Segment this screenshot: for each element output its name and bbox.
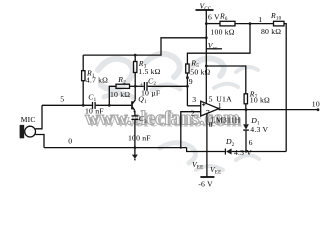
- junction node 1: [249, 22, 252, 25]
- wire node 6 vertical: [245, 131, 247, 152]
- wire R3 top stub: [134, 55, 136, 61]
- wire op-amp output to node 10: [219, 109, 319, 111]
- resistor R10 body: [274, 21, 285, 26]
- svg-text:+: +: [140, 82, 144, 88]
- svg-text:4.3 V: 4.3 V: [250, 125, 268, 134]
- wire op-amp plus input stub: [187, 105, 200, 107]
- junction node 6 on clamp rail: [245, 150, 247, 152]
- wire node1 down to R5 top: [187, 24, 250, 64]
- wire op-amp bottom pin to VEE: [206, 114, 208, 178]
- junction R2 left on net 5: [108, 104, 111, 107]
- svg-text:10 nF: 10 nF: [85, 107, 104, 116]
- ground symbol arrow: [132, 148, 138, 161]
- wire R1 vertical: [82, 55, 84, 71]
- svg-text:LM311H: LM311H: [211, 115, 241, 124]
- wire C3 bottom to ground bus: [134, 119, 136, 147]
- capacitor C3 plates: [131, 116, 138, 120]
- wire R2 left riser: [109, 86, 116, 105]
- junction node 9 upper: [186, 76, 189, 79]
- net label Vcc mid underline: [206, 48, 222, 50]
- junction Vcc stem with left rail: [205, 36, 208, 39]
- watermark calligraphy blobs: [98, 54, 259, 170]
- junction collector node: [134, 85, 137, 88]
- wire R6 left: [206, 23, 220, 25]
- junction R1 bottom on net 5: [82, 104, 85, 107]
- microphone MIC symbol: [20, 125, 36, 138]
- resistor R7 body: [244, 94, 247, 104]
- wire net 5 mic to base: [42, 104, 92, 106]
- junction C3 on ground bus: [134, 146, 137, 149]
- transistor Q1: [132, 100, 136, 113]
- svg-text:2: 2: [191, 108, 195, 117]
- wire R1 bottom to net 5: [82, 81, 84, 106]
- wire C2 right to node 9: [148, 85, 188, 87]
- resistor R2 body: [116, 84, 130, 88]
- svg-text:0: 0: [209, 120, 213, 129]
- wire node 9 vertical: [186, 73, 188, 106]
- wire mic top stub: [35, 105, 42, 129]
- watermark www.elecfans.com: [85, 108, 242, 131]
- capacitor C2 plates: [144, 82, 147, 91]
- svg-text:4.7 kΩ: 4.7 kΩ: [86, 76, 108, 85]
- junction R7 D1 on output wire: [245, 108, 248, 111]
- svg-text:6 V: 6 V: [208, 13, 220, 22]
- junction minus riser on ground bus: [180, 146, 182, 148]
- resistor R3 body: [134, 62, 137, 73]
- svg-text:100 nF: 100 nF: [128, 133, 151, 142]
- node 10 terminal dot: [317, 108, 320, 111]
- svg-text:10 kΩ: 10 kΩ: [110, 90, 130, 99]
- svg-text:7: 7: [206, 108, 210, 117]
- svg-text:9: 9: [189, 77, 193, 86]
- wire R7 bottom to output: [245, 104, 247, 110]
- svg-text:50 kΩ: 50 kΩ: [190, 67, 210, 76]
- op-amp U1A triangle: [201, 101, 219, 116]
- junction Vcc stem with R7 wire: [205, 65, 208, 68]
- resistor R1 body: [82, 71, 85, 81]
- svg-text:MIC: MIC: [21, 115, 36, 124]
- diode D2: [225, 149, 231, 155]
- wire R10 right down right edge: [284, 24, 286, 152]
- power VEE bar: [200, 176, 214, 178]
- svg-text:5: 5: [209, 94, 213, 103]
- svg-text:10 kΩ: 10 kΩ: [250, 95, 270, 104]
- wire D2 right to corner: [232, 151, 287, 153]
- wire R2 right to collector node: [130, 85, 136, 87]
- wire emitter down to C3: [134, 111, 136, 116]
- wire D1 top to output: [245, 110, 247, 125]
- svg-text:6: 6: [249, 138, 253, 147]
- svg-text:1: 1: [258, 15, 262, 24]
- op-amp plus marker: [202, 103, 205, 106]
- power Vcc symbol: [196, 10, 214, 104]
- resistor R5 body: [186, 64, 189, 73]
- svg-text:0: 0: [68, 136, 72, 145]
- wire C1 right to base: [96, 104, 132, 106]
- resistor R6 body: [220, 21, 235, 26]
- svg-text:10: 10: [312, 99, 320, 108]
- svg-text:1.5 kΩ: 1.5 kΩ: [138, 67, 160, 76]
- wire R6 right to node 1: [235, 23, 274, 25]
- diode D1: [243, 124, 249, 130]
- wire step to D2 rail: [187, 148, 225, 152]
- junction R3 top on Vcc rail: [134, 54, 137, 57]
- wire ground bus net 0: [44, 147, 187, 149]
- wire minus input riser: [181, 112, 201, 148]
- svg-text:80 kΩ: 80 kΩ: [261, 27, 281, 36]
- svg-text:5: 5: [60, 95, 64, 104]
- wire Vcc to R7 top: [206, 66, 246, 94]
- wire R3 bottom to collector: [134, 73, 136, 100]
- junction node 9 with C2 wire: [186, 85, 189, 88]
- svg-text:1: 1: [218, 101, 222, 110]
- wire collector node to C2: [135, 85, 143, 87]
- svg-text:3: 3: [192, 95, 196, 104]
- svg-text:4.3 V: 4.3 V: [234, 148, 252, 157]
- wire mic bottom stub: [35, 135, 44, 148]
- svg-text:-6 V: -6 V: [198, 179, 213, 188]
- svg-text:100 kΩ: 100 kΩ: [211, 28, 235, 37]
- capacitor C1 plates: [93, 102, 96, 109]
- junction Vcc stem with R6 wire: [205, 22, 208, 25]
- wire Vcc top rail from R1 to corner: [83, 38, 206, 55]
